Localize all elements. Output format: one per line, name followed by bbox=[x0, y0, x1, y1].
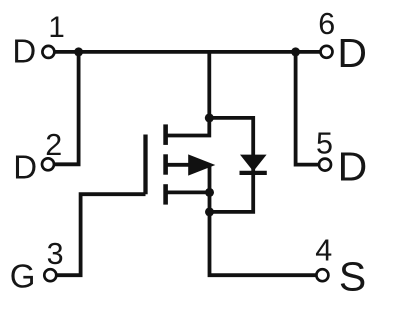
svg-text:3: 3 bbox=[47, 237, 64, 271]
svg-text:S: S bbox=[339, 253, 366, 299]
svg-text:1: 1 bbox=[48, 11, 64, 44]
svg-text:6: 6 bbox=[318, 7, 335, 41]
svg-text:D: D bbox=[337, 30, 367, 76]
svg-text:D: D bbox=[13, 149, 37, 186]
svg-text:5: 5 bbox=[316, 127, 333, 161]
svg-text:4: 4 bbox=[315, 234, 332, 268]
svg-text:D: D bbox=[12, 33, 36, 70]
svg-text:2: 2 bbox=[45, 128, 62, 162]
svg-text:D: D bbox=[338, 144, 368, 190]
svg-text:G: G bbox=[10, 258, 36, 295]
